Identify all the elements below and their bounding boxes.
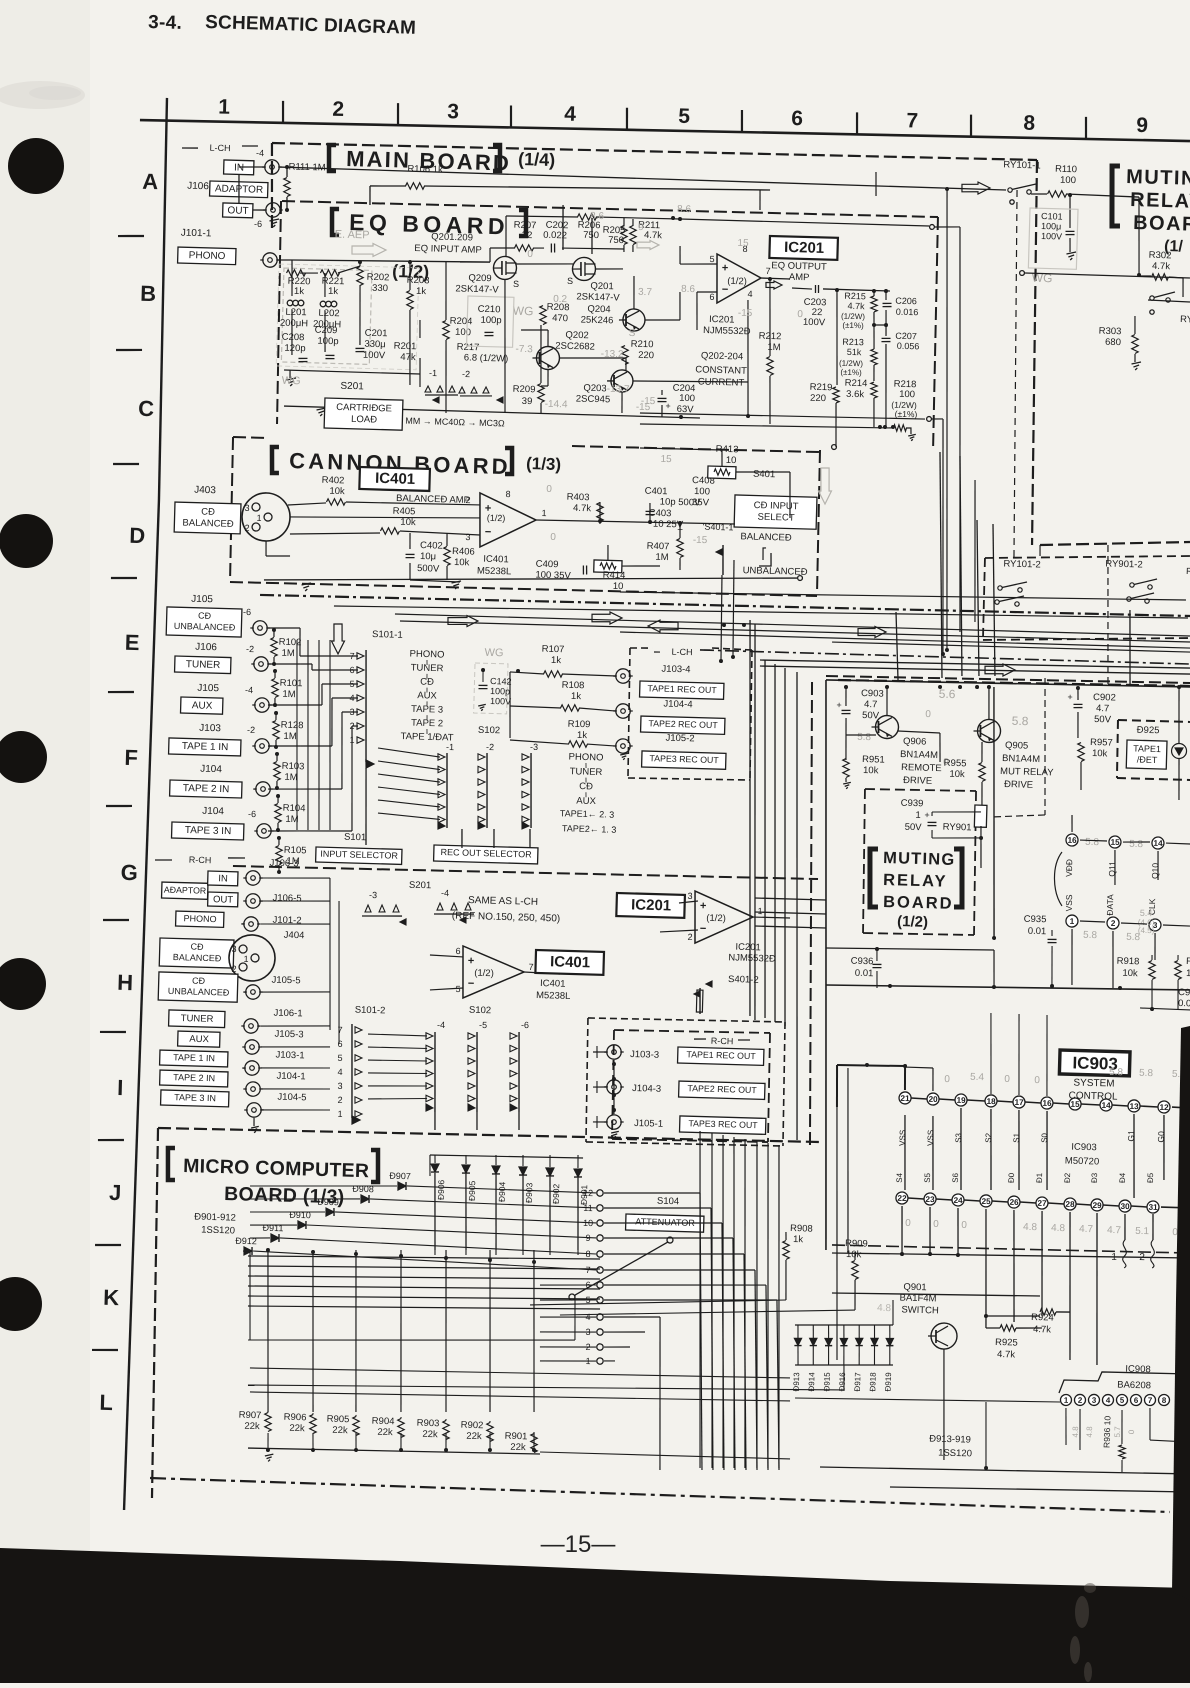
wire <box>282 199 938 220</box>
wire <box>292 257 490 266</box>
wire <box>250 1237 270 1238</box>
wire <box>604 1250 744 1258</box>
diode <box>405 1182 407 1190</box>
svg-text:0.0: 0.0 <box>1178 998 1190 1009</box>
label box <box>679 1081 765 1099</box>
wire <box>699 1130 701 1132</box>
wire <box>736 1139 754 1468</box>
capacitor <box>325 354 334 356</box>
svg-text:C409: C409 <box>536 559 559 571</box>
svg-text:0.01: 0.01 <box>1028 926 1047 938</box>
wire <box>505 216 507 256</box>
wire <box>931 1116 935 1190</box>
svg-text:3: 3 <box>687 891 692 901</box>
box <box>281 268 372 364</box>
IC pin <box>1100 1099 1112 1111</box>
wire <box>903 1115 907 1190</box>
resistor <box>352 1416 359 1435</box>
junction <box>648 520 652 524</box>
wire <box>584 1018 589 1142</box>
wire segment <box>355 1055 362 1062</box>
wire <box>98 1139 124 1141</box>
wire <box>425 394 458 396</box>
wire <box>524 972 560 974</box>
junction <box>612 1108 616 1112</box>
label box <box>224 160 254 175</box>
wire <box>445 1433 446 1452</box>
svg-text:S101-1: S101-1 <box>372 629 403 641</box>
svg-text:8: 8 <box>1162 1396 1167 1405</box>
svg-text:5.8: 5.8 <box>1139 1068 1154 1079</box>
svg-text:R403: R403 <box>567 492 590 504</box>
svg-text:6: 6 <box>455 946 460 956</box>
resistor <box>326 498 345 505</box>
wire <box>1154 933 1155 960</box>
wire segment <box>438 779 445 786</box>
wire <box>768 279 772 356</box>
wire <box>660 929 698 933</box>
label box <box>162 882 208 899</box>
junction <box>516 669 520 673</box>
junction <box>488 1258 492 1262</box>
wire <box>253 1118 255 1126</box>
title bracket <box>1110 166 1121 226</box>
svg-text:4: 4 <box>747 289 752 299</box>
wire <box>1077 688 1080 700</box>
wire <box>614 1029 770 1035</box>
svg-text:S102: S102 <box>478 725 500 737</box>
wire <box>1017 1110 1022 1190</box>
svg-text:1SS120: 1SS120 <box>938 1448 972 1460</box>
wire <box>595 268 623 270</box>
svg-text:1M: 1M <box>284 772 298 783</box>
wire <box>426 674 428 679</box>
junction <box>532 1260 536 1264</box>
wire <box>931 418 943 421</box>
wire <box>760 656 1190 672</box>
wire segment <box>468 1070 475 1077</box>
wire segment <box>906 428 911 434</box>
resistor <box>620 225 627 244</box>
wire <box>312 669 358 672</box>
svg-text:1: 1 <box>337 1109 342 1119</box>
wire <box>626 108 627 130</box>
wire <box>866 1065 868 1107</box>
node <box>1020 271 1025 276</box>
svg-text:22: 22 <box>522 230 533 241</box>
node <box>597 1344 604 1351</box>
svg-text:(4.5): (4.5) <box>1138 926 1155 935</box>
diode <box>492 1173 500 1175</box>
junction <box>671 216 675 220</box>
wire <box>1045 1015 1049 1096</box>
svg-text:0: 0 <box>546 484 552 495</box>
svg-text:6.8 (1/2W): 6.8 (1/2W) <box>464 352 509 364</box>
wire <box>949 227 972 632</box>
svg-text:R213: R213 <box>842 337 864 348</box>
wire <box>640 411 925 421</box>
label box <box>160 1070 228 1087</box>
wire <box>426 701 428 706</box>
svg-text:R9: R9 <box>1186 956 1190 967</box>
node <box>320 301 326 307</box>
wire <box>731 560 735 658</box>
wire <box>612 1060 615 1114</box>
IC pin <box>1107 917 1119 929</box>
wire <box>983 1209 989 1316</box>
svg-text:22k: 22k <box>510 1442 526 1453</box>
title bracket <box>952 849 963 908</box>
wire <box>810 680 842 1250</box>
svg-text:R107: R107 <box>542 644 565 656</box>
svg-text:35V: 35V <box>692 497 710 508</box>
svg-text:22k: 22k <box>332 1425 348 1436</box>
junction <box>945 648 949 652</box>
svg-text:CURRENT: CURRENT <box>698 376 745 388</box>
connector jack <box>616 739 631 754</box>
junction <box>273 669 277 673</box>
svg-text:Q905: Q905 <box>1005 740 1029 752</box>
signal flow arrow <box>858 626 886 638</box>
resistor <box>600 562 616 569</box>
junction <box>992 985 996 989</box>
junction <box>354 1448 358 1452</box>
wire segment <box>437 386 443 392</box>
wire <box>928 1336 930 1360</box>
wire <box>278 838 280 845</box>
FET transistor <box>493 256 517 280</box>
svg-text:S: S <box>513 279 519 289</box>
svg-text:22k: 22k <box>289 1423 305 1434</box>
svg-text:R219: R219 <box>810 382 833 394</box>
svg-text:B: B <box>140 281 157 306</box>
label box <box>626 1214 704 1232</box>
resistor <box>1151 273 1168 280</box>
node <box>597 1267 604 1274</box>
svg-text:J101-2: J101-2 <box>272 915 301 927</box>
wire <box>475 1032 479 1112</box>
node <box>241 492 290 541</box>
wire <box>934 189 960 650</box>
wire <box>679 523 682 538</box>
node <box>1010 200 1015 205</box>
resistor <box>568 740 587 747</box>
wire <box>744 624 766 1020</box>
svg-text:5: 5 <box>678 105 691 128</box>
svg-text:-6: -6 <box>521 1020 529 1030</box>
svg-text:PHONO: PHONO <box>409 649 444 661</box>
wire segment <box>522 779 529 786</box>
svg-text:(1/3): (1/3) <box>526 454 561 474</box>
svg-text:0: 0 <box>925 709 931 720</box>
svg-text:Đ901-912: Đ901-912 <box>194 1211 236 1223</box>
wire <box>278 259 292 262</box>
wire <box>265 541 268 556</box>
svg-text:ĐATA: ĐATA <box>1105 894 1116 916</box>
wire <box>970 115 971 137</box>
svg-text:-13.7: -13.7 <box>607 384 631 396</box>
resistor <box>442 320 449 339</box>
wire <box>1151 955 1153 960</box>
wire <box>275 201 283 424</box>
svg-text:(±1%): (±1%) <box>842 321 864 331</box>
svg-text:R103: R103 <box>282 761 305 773</box>
junction <box>865 1063 869 1067</box>
diode <box>462 1172 470 1174</box>
wire <box>268 663 300 665</box>
wire <box>363 650 369 762</box>
svg-text:3: 3 <box>337 1081 342 1091</box>
wire segment <box>478 791 485 798</box>
wire <box>521 1173 525 1250</box>
wire <box>300 654 358 657</box>
wire <box>939 1098 955 1101</box>
svg-text:J104: J104 <box>202 806 224 818</box>
wire <box>116 349 142 351</box>
svg-text:Q901: Q901 <box>903 1282 927 1294</box>
resistor <box>539 305 546 324</box>
node <box>287 300 293 306</box>
node <box>239 945 247 953</box>
IC pin <box>1152 837 1164 849</box>
svg-text:1k: 1k <box>328 286 339 297</box>
wire <box>612 1138 768 1144</box>
svg-text:Đ906: Đ906 <box>436 1179 447 1200</box>
wire <box>1118 720 1190 722</box>
wire <box>714 1135 733 1468</box>
wire <box>604 1295 777 1305</box>
relay contact <box>1127 597 1132 602</box>
wire <box>92 1349 118 1350</box>
svg-text:R201: R201 <box>394 341 417 353</box>
wire segment <box>522 791 529 798</box>
wire <box>562 205 564 250</box>
wire <box>785 1232 788 1240</box>
wire <box>250 1386 790 1407</box>
wire <box>845 687 846 706</box>
box <box>467 296 514 347</box>
wire <box>378 813 440 819</box>
title bracket <box>271 447 279 473</box>
svg-text:-6: -6 <box>248 809 256 819</box>
svg-text:S0: S0 <box>1040 1132 1049 1143</box>
svg-text:M5238L: M5238L <box>477 565 512 577</box>
connector jack <box>246 871 261 886</box>
wire <box>446 533 449 546</box>
resistor <box>405 182 424 189</box>
resistor <box>380 527 399 534</box>
wire <box>928 1335 936 1337</box>
svg-text:TAPE1 REC OUT: TAPE1 REC OUT <box>686 1049 756 1061</box>
ground <box>611 1131 619 1133</box>
wire <box>680 219 929 226</box>
wire <box>843 1325 846 1338</box>
wire <box>722 545 724 575</box>
wire <box>936 419 949 654</box>
svg-text:J103-3: J103-3 <box>630 1049 659 1061</box>
connector jack <box>266 203 281 218</box>
wire <box>834 290 839 385</box>
svg-text:MUTING: MUTING <box>883 849 956 869</box>
IC pin <box>1130 1394 1141 1405</box>
svg-text:R906: R906 <box>284 1412 307 1424</box>
svg-text:22k: 22k <box>244 1421 260 1432</box>
ground <box>302 583 311 586</box>
capacitor <box>657 397 666 399</box>
svg-text:26: 26 <box>1009 1198 1019 1207</box>
junction <box>276 794 280 798</box>
svg-text:Q906: Q906 <box>903 736 927 748</box>
node <box>927 416 932 421</box>
wire <box>368 1084 427 1087</box>
svg-text:PHONO: PHONO <box>183 913 216 924</box>
svg-text:TUNER: TUNER <box>186 659 221 671</box>
svg-text:5.6: 5.6 <box>939 687 956 701</box>
wire segment <box>510 1045 517 1052</box>
relay contact <box>995 600 1000 605</box>
wire <box>433 1032 437 1112</box>
wire <box>1040 538 1190 549</box>
wire <box>260 590 1190 621</box>
wire <box>521 329 548 331</box>
svg-text:10: 10 <box>726 455 737 466</box>
svg-text:7: 7 <box>337 1025 342 1035</box>
wire <box>1071 815 1074 832</box>
svg-text:IC903: IC903 <box>1071 1142 1097 1154</box>
wire <box>826 673 1190 686</box>
wire <box>1080 839 1107 842</box>
svg-text:R951: R951 <box>862 754 885 766</box>
wire <box>311 664 313 670</box>
wire <box>576 1178 580 1255</box>
svg-text:680: 680 <box>1105 337 1121 348</box>
label box <box>324 398 403 430</box>
wire <box>407 1186 596 1193</box>
svg-text:S: S <box>629 328 636 339</box>
wire <box>559 356 626 360</box>
wire <box>832 1290 1040 1299</box>
wire <box>623 218 625 226</box>
IC pin <box>1116 1394 1127 1405</box>
wire <box>738 1039 750 1042</box>
svg-text:UNBALANCEĐ: UNBALANCEĐ <box>174 621 236 633</box>
svg-text:29: 29 <box>1092 1201 1102 1210</box>
wire segment <box>451 903 457 910</box>
wire segment <box>522 766 529 773</box>
wire <box>797 1346 798 1365</box>
svg-text:47k: 47k <box>400 352 416 363</box>
junction <box>272 628 276 632</box>
wire <box>248 1289 600 1306</box>
wire <box>529 753 533 828</box>
connector jack <box>263 253 278 268</box>
wire <box>1111 931 1114 988</box>
wire <box>486 1250 495 1412</box>
wire <box>494 1175 498 1255</box>
label box <box>170 780 242 798</box>
wire <box>1045 1111 1049 1190</box>
svg-text:4: 4 <box>564 102 577 125</box>
wire <box>992 1200 1008 1203</box>
wire <box>229 437 234 580</box>
wire <box>300 745 332 747</box>
svg-text:22: 22 <box>897 1194 907 1203</box>
wire segment <box>355 1027 362 1034</box>
wire segment <box>438 754 445 761</box>
svg-text:15: 15 <box>1110 838 1120 847</box>
wire <box>700 650 1190 664</box>
svg-text:R407: R407 <box>647 541 670 553</box>
op-amp <box>694 891 754 945</box>
svg-text:Q201.209: Q201.209 <box>431 231 473 243</box>
svg-text:31: 31 <box>1148 1203 1158 1212</box>
wire <box>1031 193 1047 196</box>
wire <box>379 755 381 764</box>
wire <box>433 1173 438 1255</box>
wire <box>1177 955 1179 960</box>
capacitor <box>1074 703 1083 706</box>
svg-text:330: 330 <box>372 283 388 294</box>
wire <box>696 292 698 330</box>
svg-text:C101: C101 <box>1041 211 1063 222</box>
svg-text:R105: R105 <box>284 845 307 857</box>
svg-text:10k: 10k <box>454 557 470 568</box>
svg-text:-2: -2 <box>246 644 254 654</box>
wire <box>533 247 544 250</box>
wire <box>395 614 1190 636</box>
transistor <box>536 346 560 370</box>
svg-text:RY101-1: RY101-1 <box>1003 159 1041 171</box>
wire <box>261 1087 330 1091</box>
wire <box>1104 545 1112 688</box>
svg-text:2SC945: 2SC945 <box>576 393 611 405</box>
wire segment <box>706 981 712 987</box>
wire <box>426 660 428 665</box>
wire <box>843 1068 853 1253</box>
wire <box>845 778 847 782</box>
svg-text:TUNER: TUNER <box>570 766 603 778</box>
wire <box>267 598 269 600</box>
wire <box>433 1173 437 1250</box>
wire <box>1149 1408 1151 1440</box>
svg-text:S2: S2 <box>984 1132 993 1143</box>
junction <box>938 685 942 689</box>
resistor <box>621 345 628 364</box>
wire <box>346 501 480 506</box>
svg-text:4: 4 <box>1106 1396 1111 1405</box>
resistor <box>560 704 579 711</box>
svg-text:100 35V: 100 35V <box>535 570 571 582</box>
wire segment <box>449 386 455 392</box>
node <box>930 225 935 230</box>
wire <box>562 247 624 250</box>
svg-text:14: 14 <box>1101 1101 1111 1110</box>
wire <box>476 1112 477 1130</box>
wire <box>352 725 358 727</box>
svg-text:CĐ: CĐ <box>192 976 206 986</box>
svg-text:J101-1: J101-1 <box>181 228 212 240</box>
svg-text:7: 7 <box>528 962 533 972</box>
svg-text:+: + <box>677 525 683 536</box>
svg-text:TAPE 3 IN: TAPE 3 IN <box>174 1092 216 1103</box>
wire <box>1134 354 1136 362</box>
wire <box>576 1173 580 1250</box>
wire <box>1070 849 1074 913</box>
wire segment <box>1059 1370 1190 1396</box>
svg-text:-2: -2 <box>486 742 494 752</box>
wire <box>248 1446 540 1456</box>
diode <box>825 1344 832 1346</box>
